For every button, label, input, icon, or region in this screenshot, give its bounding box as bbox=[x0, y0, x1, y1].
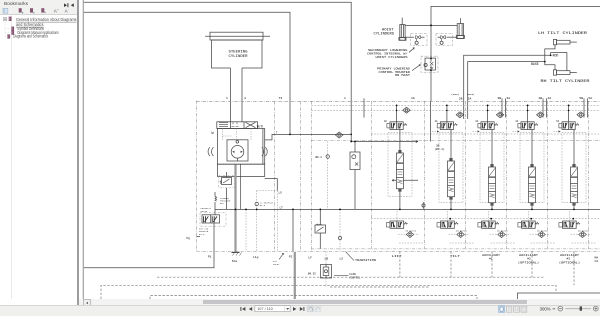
svg-text:LF: LF bbox=[308, 257, 312, 260]
svg-text:(OPTIONAL): (OPTIONAL) bbox=[518, 260, 539, 264]
enclosure left bbox=[196, 101, 198, 252]
svg-text:107 / 110: 107 / 110 bbox=[257, 307, 273, 311]
orifice 9.4 bbox=[316, 142, 330, 210]
steering housing bbox=[218, 129, 265, 165]
label secondary lowering bbox=[367, 49, 408, 59]
svg-text:Ø4.35: Ø4.35 bbox=[308, 271, 316, 275]
check valve transition bbox=[336, 132, 343, 138]
svg-text:3A: 3A bbox=[475, 120, 478, 123]
wire P1 drop bbox=[213, 223, 215, 251]
svg-text:ADJ: ADJ bbox=[220, 202, 225, 205]
svg-text:Pg: Pg bbox=[187, 237, 191, 240]
wire hoist top line bbox=[431, 6, 600, 25]
section divider aux3 bbox=[588, 101, 590, 249]
svg-text:(OPTIONAL): (OPTIONAL) bbox=[559, 260, 580, 264]
orifice LS bbox=[255, 202, 258, 205]
valve AUX2 spool bbox=[518, 105, 538, 130]
svg-text:Ø9.4: Ø9.4 bbox=[316, 155, 323, 159]
valve LIFT compensator bbox=[386, 221, 407, 228]
svg-text:W: W bbox=[212, 132, 215, 136]
thick line SCa bbox=[234, 165, 236, 253]
valve LIFT spool bbox=[387, 105, 407, 130]
svg-text:INLET: INLET bbox=[273, 263, 280, 266]
port tick Pg bbox=[197, 235, 201, 237]
svg-text:4A: 4A bbox=[515, 120, 518, 123]
valve AUX1 compensator bbox=[478, 221, 499, 228]
wire base line bbox=[468, 62, 545, 119]
svg-text:#3: #3 bbox=[567, 258, 571, 261]
wire hoist down line bbox=[430, 25, 432, 56]
wire tank return right bbox=[518, 293, 600, 299]
spring standby bbox=[215, 196, 217, 201]
thick line P2 bbox=[294, 252, 296, 299]
svg-text:T3: T3 bbox=[279, 96, 283, 100]
svg-text:L1g: L1g bbox=[253, 256, 259, 259]
svg-text:5B: 5B bbox=[579, 96, 583, 100]
page box bbox=[255, 306, 290, 312]
gerotor motor bbox=[227, 140, 248, 161]
tree texts bbox=[13, 17, 76, 39]
svg-text:2B: 2B bbox=[459, 96, 463, 100]
section divider lift bbox=[424, 101, 426, 249]
relief valve steering bbox=[219, 172, 235, 209]
check valve aux2 upper bbox=[537, 112, 544, 118]
wire LH base port bbox=[545, 45, 555, 62]
node labels 1 4 T3 bbox=[226, 93, 592, 101]
expander bbox=[3, 17, 6, 20]
tank symbol SCa bbox=[232, 252, 242, 255]
orifice on beam bbox=[422, 204, 425, 207]
check valve aux3 upper bbox=[577, 112, 584, 118]
svg-text:Ø1.0: Ø1.0 bbox=[199, 233, 205, 236]
dashed drops flow control bbox=[325, 251, 327, 287]
wire housing to T3 bbox=[265, 179, 278, 191]
valve TILT spool bbox=[437, 105, 457, 130]
svg-text:CONTROL INTEGRAL W/: CONTROL INTEGRAL W/ bbox=[367, 52, 408, 56]
spool port labels bbox=[384, 120, 560, 123]
wire standby to priority bbox=[214, 202, 216, 215]
svg-text:LT: LT bbox=[280, 206, 284, 209]
valve flow control bbox=[308, 265, 332, 279]
valve AUX3 compensator bbox=[559, 221, 580, 228]
wire lift bridge bbox=[392, 179, 418, 181]
toolbar bookmark icons bbox=[19, 8, 46, 14]
check valve aux3 lower bbox=[579, 232, 586, 238]
valve P3 pilot bbox=[350, 141, 360, 210]
node hoist junction bbox=[430, 24, 432, 26]
check valve aux1 lower bbox=[498, 232, 505, 238]
relief cartridge AUX2 bbox=[529, 154, 536, 209]
wires spool to cartridge bbox=[400, 130, 574, 155]
steering cylinder bbox=[205, 32, 270, 68]
valve AUX2 compensator bbox=[518, 221, 539, 228]
valve primary lowering control bbox=[421, 56, 438, 72]
node BASE bbox=[544, 61, 546, 63]
wire hoist interconnect bbox=[405, 24, 457, 26]
svg-text:1: 1 bbox=[226, 96, 228, 100]
relief cartridge TILT bbox=[448, 148, 455, 203]
header pin + collapse icons bbox=[64, 3, 67, 7]
wire port 1 line with arrow bbox=[351, 101, 418, 142]
toolbar separator vertical bbox=[10, 15, 12, 299]
LH tilt cylinder bbox=[554, 39, 577, 44]
node ROD bbox=[550, 54, 552, 56]
svg-text:4A: 4A bbox=[547, 96, 551, 100]
wire rod to RH bbox=[551, 53, 567, 71]
wire steering cyl lines bbox=[230, 68, 232, 122]
svg-text:2A: 2A bbox=[435, 120, 438, 123]
check valve aux1 upper bbox=[496, 112, 503, 118]
svg-text:5A: 5A bbox=[588, 96, 592, 100]
zoom controls bbox=[553, 308, 556, 311]
relief cartridge AUX1 bbox=[489, 154, 496, 209]
relief cartridge AUX3 bbox=[571, 154, 578, 209]
section divider transition bbox=[371, 101, 373, 249]
wire power beam bbox=[215, 208, 600, 210]
valve AUX1 spool bbox=[478, 105, 498, 130]
disabled view history icons bbox=[307, 307, 321, 313]
panel toggle icon bbox=[3, 8, 8, 13]
svg-text:1: 1 bbox=[344, 96, 346, 100]
nav: first page bbox=[240, 307, 252, 311]
hoist cylinder left bbox=[399, 18, 406, 41]
wire pump suction bbox=[84, 251, 214, 267]
svg-text:1B: 1B bbox=[384, 120, 387, 123]
valve transition relief bbox=[315, 209, 326, 249]
nav: next / last bbox=[293, 307, 304, 311]
svg-text:CYLINDER: CYLINDER bbox=[229, 55, 249, 59]
page layout icons bbox=[499, 306, 527, 313]
enclosure top bbox=[197, 100, 600, 102]
compensator ratio labels bbox=[406, 229, 590, 232]
svg-text:4: 4 bbox=[244, 96, 246, 100]
RH tilt cylinder bbox=[554, 70, 577, 75]
svg-text:LB: LB bbox=[325, 257, 329, 260]
dashed links lower valves bbox=[397, 211, 596, 243]
dashed boxes around cartridges bbox=[388, 133, 586, 203]
enclosure bottom lines bbox=[311, 248, 600, 250]
bookmark glyphs in tree bbox=[7, 17, 14, 39]
label hoist cylinders bbox=[374, 29, 395, 37]
wire top return line bbox=[84, 2, 351, 101]
wire port stubs top bbox=[364, 98, 588, 141]
svg-text:TILT: TILT bbox=[450, 255, 460, 258]
check valve secondary right bbox=[436, 33, 457, 45]
check valve tilt upper bbox=[456, 112, 463, 118]
svg-text:300%: 300% bbox=[540, 307, 551, 312]
spring arcs left bbox=[208, 147, 213, 156]
hoist cylinder right bbox=[456, 18, 464, 38]
orifice transition bbox=[338, 209, 341, 252]
main inlet label bbox=[273, 260, 280, 266]
check valve tilt lower bbox=[457, 232, 464, 238]
svg-text:ON MAST: ON MAST bbox=[395, 74, 410, 77]
svg-text:#2: #2 bbox=[527, 258, 531, 261]
wire T port bbox=[265, 134, 352, 140]
svg-text:LIFT: LIFT bbox=[392, 255, 402, 258]
node beam junctions bbox=[399, 209, 575, 220]
sidebar header bbox=[0, 0, 78, 15]
section divider tilt bbox=[465, 101, 467, 249]
valve AUX3 spool bbox=[559, 105, 579, 130]
svg-text:3A: 3A bbox=[506, 96, 510, 100]
check valve secondary left bbox=[405, 33, 427, 45]
check valve aux2 lower bbox=[538, 232, 545, 238]
mid boundary bbox=[312, 140, 600, 142]
port labels steering bottom bbox=[187, 237, 344, 263]
svg-text:5A: 5A bbox=[556, 120, 559, 123]
svg-text:2A: 2A bbox=[468, 96, 472, 100]
svg-text:VALVE: VALVE bbox=[201, 210, 208, 213]
valve priority bbox=[200, 213, 226, 226]
svg-text:HOIST CYLINDERS: HOIST CYLINDERS bbox=[376, 56, 408, 59]
svg-text:P1: P1 bbox=[208, 256, 212, 259]
internal galleries dashed bbox=[312, 105, 600, 218]
tree guides bbox=[4, 21, 6, 37]
svg-text:P2: P2 bbox=[289, 256, 293, 259]
svg-text:Ø1.0: Ø1.0 bbox=[260, 204, 266, 207]
svg-text:W/O: W/O bbox=[257, 125, 263, 129]
svg-text:BASE: BASE bbox=[531, 62, 539, 66]
sidebar right edge bbox=[77, 0, 78, 305]
svg-text:RH TILT CYLINDER: RH TILT CYLINDER bbox=[541, 80, 590, 84]
wire T3 top line bbox=[84, 12, 290, 134]
check valve lift upper bbox=[403, 107, 410, 113]
check valve lift lower bbox=[406, 232, 413, 238]
section divider aux1 bbox=[506, 101, 508, 249]
relief cartridge LIFT bbox=[396, 140, 403, 195]
LS dashed lines bbox=[246, 191, 277, 252]
wire P2 feed bbox=[292, 209, 294, 251]
svg-text:L5: L5 bbox=[340, 257, 344, 260]
svg-text:(Ø9.1): (Ø9.1) bbox=[435, 147, 445, 151]
svg-text:1A: 1A bbox=[411, 96, 415, 100]
svg-text:3B: 3B bbox=[497, 96, 501, 100]
svg-text:4B: 4B bbox=[538, 96, 542, 100]
svg-text:TRANSITION: TRANSITION bbox=[355, 259, 376, 262]
pilot dashes inside housing bbox=[222, 129, 251, 141]
valve steering spool bbox=[217, 122, 258, 129]
section divider aux2 bbox=[547, 101, 549, 249]
section divider steering bbox=[311, 101, 313, 251]
page left edge bbox=[82, 0, 84, 299]
svg-text:SCa: SCa bbox=[232, 260, 238, 263]
label primary lowering bbox=[377, 67, 410, 77]
wire base to RH bbox=[545, 62, 555, 70]
svg-text:STEERING: STEERING bbox=[229, 50, 249, 54]
wire rod line bbox=[464, 55, 551, 119]
pilot dashed arrows bbox=[432, 131, 559, 133]
svg-text:LH TILT CYLINDER: LH TILT CYLINDER bbox=[538, 32, 587, 36]
valve TILT compensator bbox=[437, 221, 458, 228]
dashed return box outer bbox=[101, 251, 574, 299]
svg-text:LS: LS bbox=[279, 191, 283, 194]
svg-text:CYLINDERS: CYLINDERS bbox=[374, 32, 395, 36]
svg-text:ROD: ROD bbox=[553, 54, 559, 58]
svg-text:CA: CA bbox=[595, 260, 599, 263]
spring arcs right bbox=[262, 147, 267, 156]
